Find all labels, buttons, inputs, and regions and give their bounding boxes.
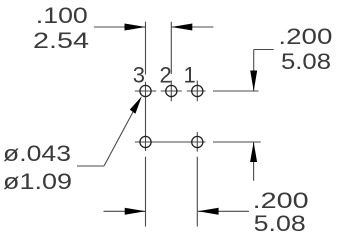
wire diameter leader horizontal <box>77 165 104 167</box>
wire top-row centerline extension right <box>213 90 259 92</box>
node pin2 centerline horizontal <box>161 90 182 92</box>
svg-text:.200: .200 <box>253 188 309 213</box>
node pin3 centerline horizontal <box>135 90 156 92</box>
wire dimension line bottom .200 left shaft <box>104 210 146 212</box>
wire extension line bottom-left pad <box>145 157 147 227</box>
wire bottom-row horizontal centerline <box>135 141 206 143</box>
svg-text:5.08: 5.08 <box>281 49 331 74</box>
svg-text:3: 3 <box>133 62 145 87</box>
arrowhead bottom .200 pointing right <box>125 208 146 215</box>
wire extension line pin2 top <box>170 22 172 74</box>
wire dimension line .100 left shaft <box>94 26 146 28</box>
arrowhead .100 dim pointing left <box>171 24 192 31</box>
wire dimension line .100 right shaft <box>171 26 213 28</box>
pad bottom-left hole circle <box>140 136 151 147</box>
pad pin 3 hole circle <box>140 85 151 96</box>
arrowhead .200 top-right pointing down <box>250 71 257 92</box>
svg-text:.100: .100 <box>36 3 88 28</box>
svg-text:.200: .200 <box>278 24 332 49</box>
wire bottom-row centerline extension right <box>213 141 261 143</box>
wire diameter leader diagonal <box>104 105 137 167</box>
wire leader .200 top-right horizontal <box>254 49 274 51</box>
node pin2 centerline vertical <box>170 81 172 102</box>
node bottom-right pad centerline vertical <box>196 132 198 152</box>
arrowhead diameter leader pointing to pin3 <box>130 96 142 113</box>
node pin1 centerline horizontal <box>187 90 206 92</box>
wire extension line pin3 top <box>145 22 147 75</box>
node pin1 centerline vertical <box>196 81 198 102</box>
pad pin 2 hole circle <box>166 85 177 96</box>
wire leader .200 top-right vertical <box>253 50 255 92</box>
pad pin 1 hole circle <box>192 85 203 96</box>
wire dimension line bottom .200 right shaft <box>198 210 249 212</box>
svg-text:ø.043: ø.043 <box>3 141 71 166</box>
wire pin3-to-bottom-left vertical centerline <box>145 82 147 151</box>
svg-text:ø1.09: ø1.09 <box>3 169 72 194</box>
arrowhead .100 dim pointing right <box>125 24 146 31</box>
svg-text:1: 1 <box>184 62 196 87</box>
arrowhead bottom .200 pointing left <box>198 208 219 215</box>
arrowhead .200 bottom pointing up <box>250 142 257 162</box>
svg-text:2.54: 2.54 <box>33 28 89 53</box>
wire leader .200 bottom vertical shaft <box>253 142 255 181</box>
svg-text:2: 2 <box>160 62 172 87</box>
pad bottom-right hole circle <box>192 136 203 147</box>
wire extension line bottom-right pad <box>196 157 198 227</box>
svg-text:5.08: 5.08 <box>254 211 306 236</box>
